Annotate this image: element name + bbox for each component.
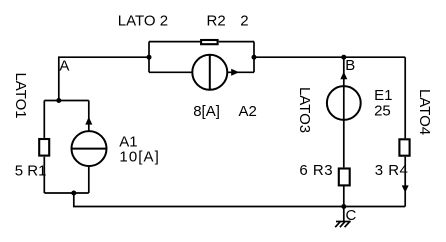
svg-text:B: B bbox=[345, 57, 355, 74]
svg-text:10[A]: 10[A] bbox=[119, 148, 160, 165]
svg-text:E1: E1 bbox=[374, 87, 392, 104]
svg-text:A2: A2 bbox=[239, 103, 257, 120]
svg-text:25: 25 bbox=[374, 103, 391, 120]
svg-text:A: A bbox=[59, 57, 69, 74]
svg-text:LATO4: LATO4 bbox=[416, 89, 433, 135]
svg-text:2: 2 bbox=[240, 13, 248, 30]
svg-text:LATO 2: LATO 2 bbox=[118, 13, 168, 30]
svg-text:LATO1: LATO1 bbox=[12, 72, 29, 118]
svg-text:C: C bbox=[346, 207, 357, 224]
svg-text:6 R3: 6 R3 bbox=[299, 162, 333, 179]
svg-text:8[A]: 8[A] bbox=[193, 103, 220, 120]
svg-text:LATO3: LATO3 bbox=[296, 87, 313, 133]
svg-text:3 R4: 3 R4 bbox=[375, 162, 409, 179]
svg-text:5 R1: 5 R1 bbox=[15, 163, 47, 180]
svg-text:R2: R2 bbox=[207, 13, 226, 30]
